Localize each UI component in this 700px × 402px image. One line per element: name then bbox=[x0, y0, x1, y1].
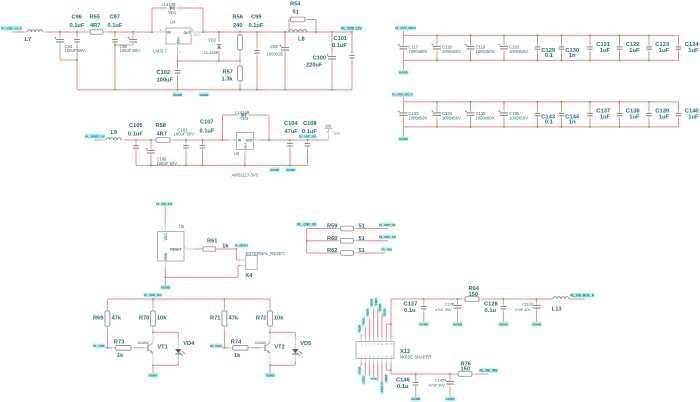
pin stub X12 bottom bbox=[373, 359, 375, 363]
net label NSE0 bbox=[358, 366, 362, 376]
wire VD3 bypass bbox=[223, 115, 270, 140]
junction rail bbox=[239, 89, 241, 91]
svg-text:AGND: AGND bbox=[270, 168, 280, 172]
ground AGND C127 bbox=[419, 322, 429, 327]
svg-text:ADJ: ADJ bbox=[177, 37, 181, 44]
wire agnd stub bank bbox=[402, 60, 404, 70]
resistor R70 bbox=[151, 308, 156, 329]
resistor R54 bbox=[289, 17, 307, 22]
svg-text:47uF: 47uF bbox=[285, 129, 299, 135]
svg-text:1000x50V: 1000x50V bbox=[476, 49, 495, 54]
net label PL_VDD_12V bbox=[341, 26, 362, 31]
op-amp U4 LM317 body bbox=[166, 28, 191, 44]
wire base wire bbox=[251, 347, 261, 349]
svg-text:L9: L9 bbox=[111, 130, 118, 136]
junction bbox=[135, 139, 137, 141]
svg-text:AGND: AGND bbox=[200, 93, 210, 97]
svg-text:VCC: VCC bbox=[164, 233, 168, 241]
junction bbox=[537, 59, 539, 61]
svg-text:C100: C100 bbox=[313, 56, 327, 62]
wire agnd stub bbox=[152, 365, 154, 373]
wire R58 to U5 bbox=[173, 139, 230, 141]
wire ADJ down U5 bbox=[244, 155, 246, 166]
capacitor C136 bbox=[498, 102, 508, 127]
wire bottom rail 1 bbox=[77, 89, 352, 91]
svg-text:RESET: RESET bbox=[170, 247, 182, 251]
ground AGND C115 bbox=[452, 322, 462, 327]
svg-text:VD4: VD4 bbox=[183, 341, 195, 347]
connector X4 body bbox=[246, 256, 258, 270]
diode VD2 bbox=[217, 45, 221, 49]
wire collector bbox=[270, 332, 295, 337]
svg-text:R73: R73 bbox=[114, 340, 124, 346]
junction bbox=[503, 126, 505, 128]
svg-text:NSD3: NSD3 bbox=[371, 298, 374, 305]
wire R70 bottom bbox=[152, 329, 154, 332]
junction bbox=[284, 31, 286, 33]
net label PL_VDD_5RC_R bbox=[392, 92, 413, 96]
junction bbox=[415, 373, 417, 375]
wire row2 out bbox=[357, 240, 389, 242]
capacitor C105 bbox=[133, 140, 139, 166]
junction bbox=[537, 126, 539, 128]
svg-text:47k: 47k bbox=[229, 316, 239, 322]
capacitor C127 bbox=[421, 299, 427, 322]
pin stub X12 bottom bbox=[385, 359, 387, 363]
capacitor C123 bbox=[646, 35, 652, 60]
svg-text:OUT: OUT bbox=[246, 139, 254, 143]
svg-text:1000x50V: 1000x50V bbox=[442, 116, 461, 121]
svg-text:AGND: AGND bbox=[399, 71, 409, 75]
wire emitter pin bbox=[152, 353, 154, 365]
junction bbox=[76, 59, 78, 61]
capacitor C134 bbox=[431, 102, 441, 127]
junction bbox=[648, 101, 650, 103]
svg-text:AGND: AGND bbox=[419, 322, 429, 326]
capacitor C97 bbox=[112, 32, 118, 90]
wire X12 pin down bbox=[381, 363, 383, 385]
svg-text:IN: IN bbox=[167, 31, 171, 35]
junction bbox=[151, 31, 153, 33]
junction rail2 bbox=[202, 165, 204, 167]
net label NSE1 bbox=[362, 375, 366, 385]
wire R69 top bbox=[106, 299, 108, 308]
transistor VT1 bbox=[148, 343, 153, 354]
pin stub X12 bottom bbox=[381, 359, 383, 363]
svg-text:2x5: 2x5 bbox=[325, 124, 331, 128]
pin stub X12 top bbox=[364, 338, 366, 342]
wire X12 pin7 jog bbox=[386, 324, 391, 337]
wire C94 bottom bbox=[60, 45, 77, 61]
wire R70 top bbox=[152, 299, 154, 308]
resistor R73 bbox=[113, 346, 134, 351]
junction bbox=[449, 373, 451, 375]
wire R61 to X4 bbox=[216, 248, 237, 250]
svg-text:EXTERNAL_RESET: EXTERNAL_RESET bbox=[246, 251, 285, 256]
ground AGND bbox=[148, 373, 158, 378]
svg-text:IN: IN bbox=[238, 138, 242, 142]
junction bbox=[223, 347, 225, 349]
section: reset supervisor U6 bbox=[156, 202, 285, 290]
svg-text:PL_VDD_3V3: PL_VDD_3V3 bbox=[156, 203, 172, 206]
svg-text:GND: GND bbox=[164, 252, 168, 260]
junction bbox=[470, 126, 472, 128]
wire base row bbox=[222, 347, 230, 349]
junction bbox=[648, 34, 650, 36]
junction bbox=[537, 101, 539, 103]
svg-text:AGND: AGND bbox=[532, 322, 542, 326]
net label NSD1 bbox=[362, 317, 366, 327]
wire label stub bbox=[351, 31, 353, 32]
wire L7 to U4 IN bbox=[47, 31, 156, 33]
section: +12V LM317 regulator bbox=[1, 2, 362, 97]
junction bbox=[436, 59, 438, 61]
wire net input 2 bbox=[94, 139, 103, 141]
wire VD5 pins bbox=[294, 337, 296, 349]
svg-text:220uF: 220uF bbox=[306, 63, 323, 69]
junction bbox=[269, 364, 271, 366]
resistor R72 bbox=[268, 308, 273, 329]
section: series termination resistors bbox=[296, 222, 397, 255]
wire ADJ down bbox=[178, 55, 241, 61]
junction bbox=[619, 59, 621, 61]
wire collector pin bbox=[269, 333, 271, 343]
capacitor C119 bbox=[465, 35, 475, 60]
svg-text:NSD0: NSD0 bbox=[358, 324, 361, 331]
svg-text:1000x50V: 1000x50V bbox=[408, 49, 427, 54]
pin stub X12 top bbox=[368, 338, 370, 342]
svg-text:PL_VDD_5RC_R: PL_VDD_5RC_R bbox=[392, 93, 413, 97]
pin stub X12 top bbox=[390, 338, 392, 342]
ground AGND bbox=[398, 70, 408, 75]
junction bbox=[223, 298, 225, 300]
junction bbox=[106, 347, 108, 349]
wire base wire bbox=[134, 347, 144, 349]
svg-text:1uF: 1uF bbox=[629, 114, 640, 120]
junction bbox=[648, 126, 650, 128]
led VD4 bbox=[175, 349, 185, 356]
svg-text:1uF: 1uF bbox=[688, 48, 699, 54]
svg-text:PL_OSC_NS: PL_OSC_NS bbox=[379, 223, 396, 227]
svg-text:0.1: 0.1 bbox=[545, 53, 554, 59]
junction bbox=[503, 101, 505, 103]
resistor R58 bbox=[153, 138, 173, 143]
junction bbox=[390, 323, 392, 325]
junction rail2 bbox=[150, 165, 152, 167]
inductor L9 bbox=[106, 138, 121, 140]
wire X12 pin gnd bbox=[368, 363, 370, 377]
junction bbox=[470, 101, 472, 103]
capacitor C144 bbox=[559, 102, 565, 127]
svg-text:PL_DVDD_5V: PL_DVDD_5V bbox=[85, 135, 106, 139]
svg-text:VD3: VD3 bbox=[240, 116, 249, 121]
inductor L8 bbox=[289, 30, 307, 32]
junction bbox=[619, 126, 621, 128]
svg-text:0.1u: 0.1u bbox=[485, 308, 497, 314]
wire net input bbox=[12, 31, 24, 33]
svg-text:C107: C107 bbox=[200, 120, 214, 126]
junction bbox=[536, 298, 538, 300]
svg-text:AGND: AGND bbox=[399, 137, 409, 141]
capacitor C94 bbox=[54, 32, 64, 45]
svg-text:C115: C115 bbox=[445, 302, 454, 306]
wire R76 out bbox=[475, 373, 489, 375]
capacitor C146 bbox=[413, 374, 419, 397]
svg-text:1uF: 1uF bbox=[600, 48, 611, 54]
wire X12 pin up bbox=[360, 334, 362, 337]
wire nsclk row bbox=[391, 298, 462, 300]
ground AGND X12 bbox=[370, 377, 377, 381]
net label PL_NS_WS bbox=[479, 368, 499, 372]
svg-text:AGND: AGND bbox=[446, 397, 456, 401]
wire U4 OUT rail bbox=[203, 31, 353, 33]
capacitor C140 bbox=[676, 102, 682, 127]
capacitor C135 bbox=[465, 102, 475, 127]
wire X12 pin down bbox=[377, 363, 379, 382]
wire X12 pin up bbox=[377, 308, 379, 338]
svg-text:R74: R74 bbox=[231, 340, 242, 346]
wire row1 bbox=[307, 228, 338, 230]
svg-text:R62: R62 bbox=[327, 248, 337, 254]
wire R54 left vert bbox=[288, 20, 290, 33]
svg-text:PL_OSC_CO: PL_OSC_CO bbox=[379, 235, 397, 239]
net label PL_RXD bbox=[210, 344, 223, 348]
junction bbox=[269, 331, 271, 333]
svg-text:10k: 10k bbox=[274, 316, 284, 322]
capacitor C106 bbox=[145, 140, 155, 166]
junction bbox=[289, 139, 291, 141]
svg-text:10k: 10k bbox=[157, 316, 167, 322]
svg-text:PL_VDD_3V3: PL_VDD_3V3 bbox=[144, 293, 162, 297]
wire to X4 pin1 bbox=[236, 249, 240, 260]
junction bbox=[76, 31, 78, 33]
ground AGND bbox=[286, 167, 296, 172]
junction bbox=[315, 31, 317, 33]
wire row2 bbox=[307, 240, 338, 242]
junction bbox=[202, 139, 204, 141]
section: LED indicator drivers bbox=[93, 293, 311, 377]
wire bank top rail bbox=[403, 34, 678, 36]
junction bbox=[589, 59, 591, 61]
svg-text:100uF 50V: 100uF 50V bbox=[65, 48, 86, 53]
svg-text:47uF 50V: 47uF 50V bbox=[435, 308, 452, 312]
net label PL_OSC_CO bbox=[379, 235, 397, 239]
svg-text:1k: 1k bbox=[117, 353, 124, 359]
svg-text:0.1u: 0.1u bbox=[397, 384, 409, 390]
svg-text:R55: R55 bbox=[90, 14, 100, 20]
svg-text:NSD2: NSD2 bbox=[367, 308, 370, 315]
junction rail bbox=[177, 89, 179, 91]
junction bbox=[589, 126, 591, 128]
wire R56 bottom bbox=[239, 53, 241, 61]
junction bbox=[256, 31, 258, 33]
svg-text:U4: U4 bbox=[170, 19, 176, 24]
junction bbox=[537, 34, 539, 36]
svg-text:51: 51 bbox=[293, 10, 299, 16]
wire X12 pin up bbox=[368, 318, 370, 338]
junction bbox=[503, 34, 505, 36]
wire X12 pin gnd 2 bbox=[373, 363, 375, 377]
svg-text:PL_VDC_3V3: PL_VDC_3V3 bbox=[299, 134, 316, 138]
svg-text:AGND: AGND bbox=[371, 378, 378, 381]
svg-text:OUT: OUT bbox=[184, 31, 192, 35]
svg-text:100uF: 100uF bbox=[157, 78, 174, 84]
svg-text:NSE0: NSE0 bbox=[358, 366, 361, 373]
wire bank bottom rail bbox=[403, 126, 678, 128]
junction rail2 bbox=[244, 165, 246, 167]
svg-text:R71: R71 bbox=[210, 316, 220, 322]
svg-text:0.1uF: 0.1uF bbox=[108, 23, 123, 29]
wire agnd stub bank bbox=[402, 127, 404, 136]
junction bbox=[589, 34, 591, 36]
capacitor C115 bbox=[452, 299, 462, 322]
junction bbox=[114, 44, 116, 46]
led VD5 bbox=[292, 349, 302, 356]
svg-text:R72: R72 bbox=[256, 316, 266, 322]
diode VD1 bbox=[168, 6, 177, 10]
junction bbox=[177, 60, 179, 62]
wire emitter pin bbox=[269, 353, 271, 365]
junction rail2 bbox=[289, 165, 291, 167]
svg-text:1uF: 1uF bbox=[659, 114, 670, 120]
capacitor C138 bbox=[617, 102, 623, 127]
svg-text:NSD4: NSD4 bbox=[375, 298, 378, 305]
wire R54 right vert bbox=[307, 20, 316, 33]
svg-text:0.1u: 0.1u bbox=[404, 308, 416, 314]
junction bbox=[436, 34, 438, 36]
wire agnd stub U6 bbox=[164, 277, 166, 285]
resistor R62 bbox=[338, 251, 357, 256]
capacitor C143 bbox=[535, 102, 541, 127]
net label PL_VDD_5RC2 bbox=[395, 26, 416, 30]
svg-text:C108: C108 bbox=[303, 121, 317, 127]
wire emitter rail bbox=[153, 361, 178, 365]
svg-text:100uF 50V: 100uF 50V bbox=[174, 132, 195, 137]
svg-text:X4: X4 bbox=[245, 273, 253, 279]
svg-text:PL_VDD_5RC2: PL_VDD_5RC2 bbox=[395, 26, 416, 30]
wire vdd rail bbox=[107, 298, 269, 300]
svg-text:1000x50V: 1000x50V bbox=[509, 49, 528, 54]
wire bank top rail bbox=[403, 101, 678, 103]
capacitor C96 bbox=[74, 32, 80, 90]
junction bbox=[132, 31, 134, 33]
svg-text:R57: R57 bbox=[223, 70, 233, 76]
resistor R69 bbox=[105, 308, 110, 329]
resistor R56 bbox=[238, 32, 243, 53]
junction rail2 bbox=[185, 165, 187, 167]
svg-text:PL_OSC_IN: PL_OSC_IN bbox=[297, 223, 316, 227]
svg-text:AMS1117-3V3: AMS1117-3V3 bbox=[232, 172, 259, 177]
junction bbox=[648, 59, 650, 61]
svg-text:4R7: 4R7 bbox=[90, 23, 100, 29]
wire after R64 bbox=[482, 298, 553, 300]
capacitor C139 bbox=[646, 102, 652, 127]
junction bbox=[589, 101, 591, 103]
junction bbox=[202, 31, 204, 33]
junction bbox=[502, 298, 504, 300]
junction bbox=[561, 126, 563, 128]
net label NSD4 bbox=[374, 298, 378, 308]
net label PL_VDD_3V3 rail bbox=[144, 293, 163, 297]
capacitor C98 bbox=[279, 32, 289, 90]
svg-text:1000x50V: 1000x50V bbox=[442, 49, 461, 54]
junction bbox=[390, 369, 392, 371]
net label NSD6 bbox=[383, 308, 387, 318]
svg-text:0.1uF: 0.1uF bbox=[70, 23, 85, 29]
pin stub X12 bottom bbox=[368, 359, 370, 363]
svg-text:R54: R54 bbox=[290, 2, 301, 8]
net label PL_RESET bbox=[235, 244, 249, 248]
svg-text:U5: U5 bbox=[234, 151, 240, 156]
svg-text:R56: R56 bbox=[233, 14, 243, 20]
wire row3 bbox=[307, 252, 338, 254]
svg-text:TP5: TP5 bbox=[333, 132, 340, 136]
svg-text:0.1uF: 0.1uF bbox=[302, 129, 317, 135]
svg-text:C98: C98 bbox=[270, 44, 278, 49]
wire X12 to R76 row bbox=[390, 363, 392, 375]
svg-text:47k: 47k bbox=[112, 316, 122, 322]
svg-text:1n: 1n bbox=[569, 53, 576, 59]
svg-text:AGND: AGND bbox=[173, 93, 183, 97]
junction bbox=[457, 298, 459, 300]
junction bbox=[503, 59, 505, 61]
ground AGND bbox=[398, 137, 408, 142]
svg-text:AGND: AGND bbox=[286, 168, 296, 172]
junction bbox=[114, 31, 116, 33]
wire L9 to R58 bbox=[125, 139, 154, 141]
svg-text:C146: C146 bbox=[396, 377, 411, 383]
junction bbox=[470, 59, 472, 61]
svg-text:BC850: BC850 bbox=[138, 341, 149, 345]
wire osc vertical bbox=[306, 229, 308, 254]
svg-text:AGND: AGND bbox=[411, 397, 421, 401]
svg-text:AGND: AGND bbox=[453, 322, 463, 326]
svg-text:NSE4: NSE4 bbox=[381, 385, 384, 392]
svg-text:150: 150 bbox=[469, 292, 479, 298]
ground AGND bbox=[160, 285, 170, 290]
svg-text:PL_NS_BCK_R: PL_NS_BCK_R bbox=[570, 294, 594, 298]
capacitor C108 bbox=[305, 140, 311, 166]
capacitor C145 bbox=[444, 374, 454, 397]
svg-text:R61: R61 bbox=[207, 239, 217, 245]
wire R57 bottom bbox=[239, 84, 241, 90]
ground AGND C146 bbox=[411, 397, 421, 402]
junction bbox=[239, 31, 241, 33]
svg-text:1uF: 1uF bbox=[629, 48, 640, 54]
ground AGND bbox=[199, 92, 209, 97]
svg-text:C116: C116 bbox=[522, 302, 531, 306]
junction bbox=[218, 31, 220, 33]
wire X12 pin down bbox=[360, 363, 362, 367]
junction rail bbox=[114, 89, 116, 91]
net label NSE3 bbox=[380, 381, 384, 391]
wire X12 pin up bbox=[364, 327, 366, 338]
resistor R71 bbox=[222, 308, 227, 329]
svg-text:BC850: BC850 bbox=[255, 341, 266, 345]
svg-text:1000x50V: 1000x50V bbox=[509, 116, 528, 121]
junction bbox=[239, 60, 241, 62]
svg-text:AGND: AGND bbox=[149, 373, 159, 377]
wire R71 bottom bbox=[223, 329, 225, 348]
resistor R55 bbox=[87, 30, 106, 35]
net label PL_VDC_3V3 bbox=[299, 134, 317, 138]
pin stub X12 bottom bbox=[377, 359, 379, 363]
svg-text:1000X25: 1000X25 bbox=[267, 52, 284, 57]
wire R72 top bbox=[269, 299, 271, 308]
wire bank bottom rail bbox=[403, 59, 678, 61]
svg-text:ADJ: ADJ bbox=[243, 143, 247, 149]
wire X12 pin up bbox=[373, 308, 375, 337]
